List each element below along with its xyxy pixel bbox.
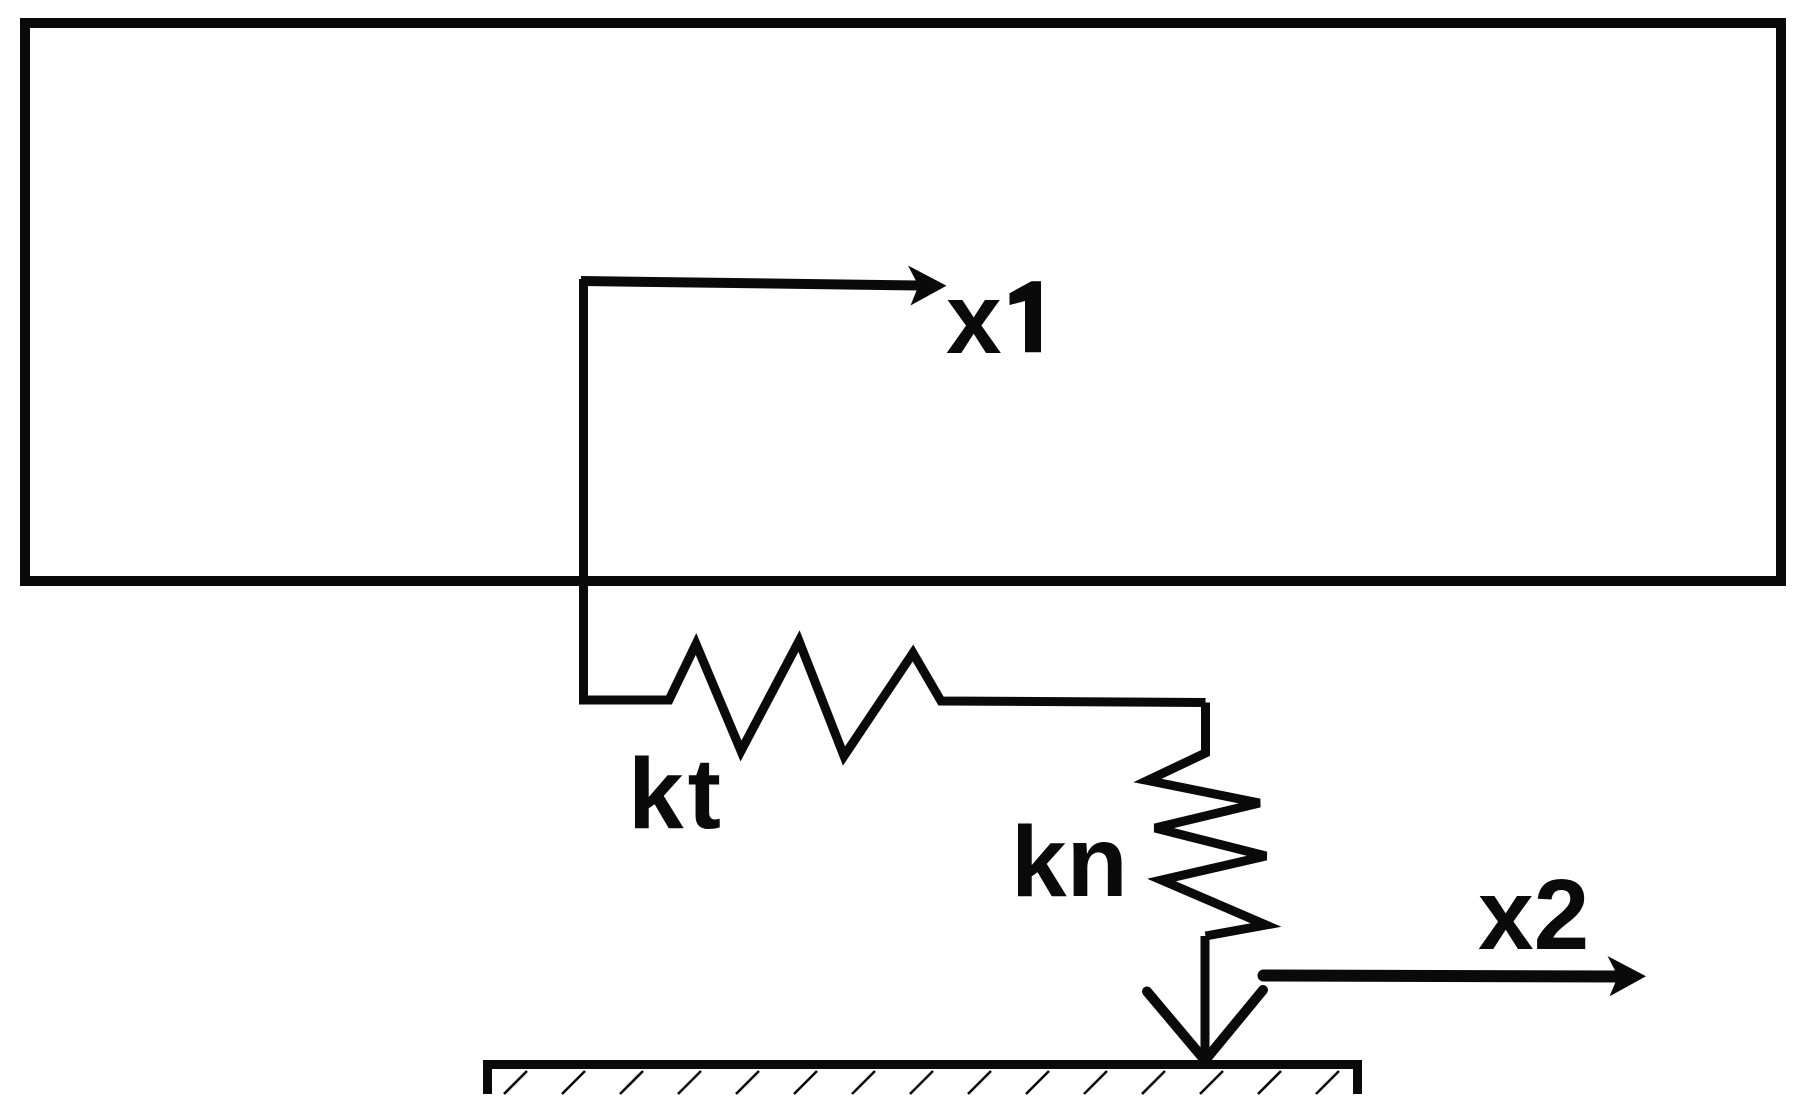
- down arrow onto ground (right barb): [1207, 990, 1263, 1058]
- spring kn (vertical zigzag): [1148, 703, 1267, 937]
- arrow x2 shaft: [1264, 976, 1621, 977]
- svg-text:x: x: [946, 263, 1002, 375]
- ground left end tick: [483, 1065, 492, 1095]
- wire from x1 origin down to spring kt: [579, 279, 588, 700]
- arrow x1 shaft: [581, 281, 920, 286]
- arrow x1 head: [908, 266, 947, 306]
- wire from spring kn down to ground: [1201, 936, 1210, 1062]
- svg-text:x2: x2: [1478, 859, 1589, 971]
- ground surface line: [483, 1060, 1362, 1069]
- svg-text:kt: kt: [628, 738, 725, 850]
- ground right end tick: [1353, 1065, 1362, 1095]
- down arrow onto ground (left barb): [1147, 992, 1203, 1059]
- mass block M (large rectangle): [25, 23, 1781, 581]
- arrow x2 head: [1608, 956, 1647, 996]
- spring kt (horizontal zigzag): [579, 641, 1206, 756]
- svg-text:kn: kn: [1011, 806, 1128, 918]
- ground hatching: [504, 1071, 1339, 1094]
- label x1 digit 1: [1010, 281, 1042, 352]
